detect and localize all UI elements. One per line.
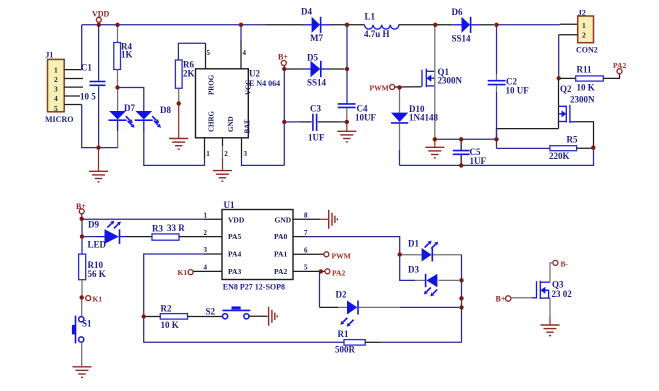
node boost junctions top rail [345, 23, 499, 27]
LED D1 [402, 239, 462, 262]
svg-text:D1: D1 [408, 239, 419, 249]
wire D1/D3 left branch [400, 255, 415, 281]
U1 pin 8 [293, 212, 329, 220]
U1 pin 2 [204, 229, 208, 237]
svg-text:R5: R5 [567, 135, 578, 145]
svg-text:3: 3 [244, 150, 248, 158]
capacitor C2 [488, 25, 530, 140]
transistor Q3 2302 [537, 280, 573, 300]
node B+ top terminal [278, 53, 288, 66]
wire B+ to Q3 gate [511, 297, 537, 299]
svg-text:SS14: SS14 [307, 78, 327, 88]
svg-text:5: 5 [207, 49, 211, 57]
node PA2 terminal at pin5 [325, 269, 346, 278]
node B+ gate junction [459, 296, 463, 300]
U1 pin 4 [193, 264, 222, 272]
svg-text:1: 1 [54, 65, 58, 74]
capacitor C3 [287, 104, 347, 143]
node PWM/D10 junction [397, 85, 401, 89]
svg-text:U2: U2 [249, 69, 260, 79]
svg-text:2: 2 [582, 31, 586, 40]
LED D2 [320, 290, 460, 327]
wire Q1 drain/source column [434, 25, 436, 140]
svg-text:CON2: CON2 [576, 46, 598, 55]
svg-text:PA1: PA1 [274, 250, 287, 259]
U1 pin 3 [204, 246, 223, 254]
connector J1 MICRO [45, 51, 73, 125]
ground below R6 [169, 104, 188, 150]
node D3 right junction [459, 278, 463, 282]
svg-text:7: 7 [304, 229, 308, 237]
node B+ / D5 junctions [282, 67, 349, 124]
svg-text:3: 3 [54, 85, 58, 94]
diode D6 SS14 [452, 7, 480, 44]
inductor L1 [364, 12, 399, 40]
svg-text:D3: D3 [408, 265, 419, 275]
svg-text:10UF: 10UF [355, 113, 376, 123]
node battery-minus row junctions [433, 137, 499, 167]
wire B+ column [283, 66, 285, 166]
wire right vertical collector x=461.5 [461, 255, 463, 343]
node PA2 branch junction [319, 269, 323, 273]
svg-text:S2: S2 [206, 306, 216, 316]
svg-text:2300N: 2300N [438, 76, 463, 86]
svg-text:D6: D6 [452, 7, 463, 17]
transistor Q2 2300N [559, 78, 596, 128]
node PA2 top terminal [613, 61, 626, 74]
svg-text:U1: U1 [224, 200, 235, 210]
transistor Q1 2300N [422, 67, 463, 87]
node K1 terminal at R10 [86, 295, 103, 304]
wire B+ column down to R10 [81, 219, 83, 254]
wire J1 pin5 to ground row [82, 105, 119, 148]
svg-text:56 K: 56 K [88, 269, 106, 279]
U1 pin 5 [293, 264, 325, 272]
node PWM terminal at pin6 [324, 252, 351, 261]
diode D4 M7 [301, 7, 331, 44]
svg-text:PA2: PA2 [274, 267, 287, 276]
svg-text:2K: 2K [183, 69, 195, 79]
ground below C3/C4 [337, 122, 356, 142]
ground below Q3 [541, 316, 560, 335]
wire Q3 drain to B- [550, 263, 553, 282]
svg-text:VDD: VDD [92, 10, 110, 19]
node D2 right junction [459, 305, 463, 309]
svg-text:1: 1 [582, 21, 586, 30]
ground below C1 [89, 148, 108, 182]
IC U2 charger [196, 69, 281, 138]
svg-text:33 R: 33 R [167, 223, 185, 233]
resistor R5 [497, 135, 594, 162]
svg-text:1K: 1K [121, 50, 133, 60]
resistor R1 [335, 329, 462, 355]
svg-text:4: 4 [204, 264, 208, 272]
wire PA0 pin7 to D1 [308, 237, 400, 255]
svg-text:K1: K1 [178, 268, 188, 277]
U2 pin 4 VCC top-right [241, 25, 247, 69]
svg-text:PA3: PA3 [228, 267, 241, 276]
svg-text:PWM: PWM [370, 83, 389, 92]
U1 pin 7 [293, 229, 308, 237]
svg-text:B+: B+ [496, 295, 506, 304]
wire B+ to U1 VDD pin1 [82, 214, 204, 220]
wire PWM to Q1 gate [395, 86, 422, 88]
svg-text:5: 5 [304, 264, 308, 272]
resistor R2 [144, 304, 223, 331]
svg-text:Q2: Q2 [560, 84, 572, 94]
U2 pin 2 GND bottom [223, 138, 229, 158]
switch S2 [206, 306, 268, 319]
svg-text:1UF: 1UF [470, 156, 487, 166]
svg-text:D7: D7 [124, 103, 135, 113]
node B- terminal [553, 260, 569, 269]
svg-text:4: 4 [243, 49, 247, 57]
switch S1 [72, 298, 92, 367]
svg-text:S1: S1 [82, 319, 92, 329]
wire bottom net row y=165.4 [400, 148, 594, 166]
svg-text:10 K: 10 K [161, 320, 179, 330]
svg-text:Q3: Q3 [552, 280, 564, 290]
svg-text:PROG: PROG [208, 74, 216, 95]
J1 pin stubs [64, 70, 83, 105]
svg-text:L1: L1 [365, 12, 376, 22]
svg-text:GND: GND [227, 116, 235, 132]
svg-text:23 02: 23 02 [552, 289, 573, 299]
svg-text:PWM: PWM [332, 252, 351, 261]
capacitor C4 [338, 104, 377, 123]
node PWM terminal [370, 83, 395, 92]
svg-text:D4: D4 [301, 7, 312, 17]
node B+ terminal at Q3 gate [496, 295, 511, 304]
wire Q3 source to ground [549, 298, 551, 316]
node B+ bottom-left terminal [76, 202, 86, 214]
svg-text:4: 4 [54, 94, 58, 103]
node R6 junction [177, 101, 181, 105]
svg-text:GND: GND [275, 216, 292, 225]
node R5 right junction [591, 146, 595, 150]
ground below S1 [73, 367, 92, 378]
svg-text:1: 1 [206, 150, 210, 158]
svg-text:R1: R1 [338, 329, 349, 339]
svg-text:3: 3 [204, 246, 208, 254]
wire Q2 source row to C2 node [497, 128, 559, 130]
svg-text:2: 2 [54, 75, 58, 84]
resistor R10 [79, 254, 106, 295]
wire left branch to J1 pin1 [81, 25, 83, 70]
capacitor C1 [80, 25, 106, 148]
svg-text:E N4 064: E N4 064 [249, 79, 280, 88]
node K1 terminal at pin4 [178, 268, 194, 277]
wire U2 BAT to B+ column [242, 158, 285, 165]
svg-text:2: 2 [204, 229, 208, 237]
diode D5 SS14 [287, 53, 345, 88]
ground rotated at S2 [269, 307, 278, 326]
svg-text:PA4: PA4 [228, 250, 241, 259]
svg-text:MICRO: MICRO [45, 115, 73, 124]
svg-text:SS14: SS14 [452, 34, 472, 44]
svg-text:1N4148: 1N4148 [409, 113, 438, 123]
LED D8 [135, 105, 172, 133]
wire J2 pin2 [559, 35, 578, 79]
svg-text:10 UF: 10 UF [506, 86, 530, 96]
wire VDD top rail y=24.8 [82, 23, 578, 26]
svg-text:VCC: VCC [245, 80, 253, 95]
ground below U2 GND pin [213, 158, 232, 181]
svg-text:D8: D8 [160, 105, 171, 115]
svg-text:R3: R3 [152, 224, 163, 234]
wire D8 to U2 CHRG [144, 133, 205, 165]
wire Q2 gate to R5 right [570, 122, 594, 148]
node D1 branch junction [398, 252, 402, 256]
U2 pin 3 BAT bottom [242, 138, 248, 158]
svg-text:D9: D9 [88, 220, 99, 230]
U1 pin 6 [293, 246, 324, 254]
svg-text:K1: K1 [93, 295, 103, 304]
svg-text:500R: 500R [335, 345, 356, 355]
svg-text:C3: C3 [310, 104, 321, 114]
resistor R4 [114, 25, 133, 88]
svg-text:6: 6 [304, 246, 308, 254]
node C1 ground junction [96, 145, 100, 149]
svg-text:PA0: PA0 [274, 232, 287, 241]
wire PA4 loop to R2 and bottom row [144, 254, 344, 342]
svg-text:D2: D2 [336, 290, 347, 300]
svg-text:10 5: 10 5 [80, 92, 96, 102]
svg-text:CHRG: CHRG [208, 110, 216, 132]
U2 pin 5 PROG top-left [206, 43, 211, 69]
node B+ bottom junctions [80, 217, 85, 300]
U1 pin 1 [204, 212, 223, 220]
svg-text:R11: R11 [577, 65, 593, 75]
wire R4 junction to D8 [118, 88, 144, 112]
diode D10 1N4148 [391, 88, 438, 166]
LED D7 [109, 88, 136, 148]
svg-text:J1: J1 [45, 51, 53, 60]
svg-text:2: 2 [224, 150, 228, 158]
LED D3 [408, 265, 459, 297]
power VDD terminal [92, 10, 110, 23]
resistor R11 [559, 65, 620, 93]
svg-text:LED: LED [88, 240, 107, 250]
resistor R6 [175, 43, 205, 103]
node VDD junctions [97, 23, 244, 27]
connector J2 CON2 [576, 9, 598, 55]
svg-text:8: 8 [304, 212, 308, 220]
svg-text:R2: R2 [161, 304, 172, 314]
LED D9 [82, 220, 152, 250]
svg-text:220K: 220K [549, 151, 570, 161]
svg-text:EN8 P27 12-SOP8: EN8 P27 12-SOP8 [223, 282, 285, 291]
svg-text:10 K: 10 K [577, 83, 595, 93]
svg-text:D5: D5 [307, 53, 318, 63]
capacitor C5 [453, 139, 487, 166]
svg-text:B-: B- [561, 260, 569, 269]
svg-text:BAT: BAT [244, 119, 252, 133]
svg-text:4.7u H: 4.7u H [364, 29, 390, 39]
IC U1 EN8P2712 [222, 200, 293, 291]
wire battery-minus row y=139.3 [435, 138, 497, 140]
svg-text:VDD: VDD [228, 216, 245, 225]
svg-text:PA2: PA2 [332, 269, 345, 278]
svg-text:5: 5 [54, 104, 58, 113]
node R2 junction [142, 314, 146, 318]
wire PA2 pin5 branch to D2 [320, 271, 321, 307]
node R4/D7 junction [115, 85, 119, 89]
svg-text:1: 1 [204, 212, 208, 220]
svg-text:C1: C1 [81, 63, 92, 73]
ground rotated at U1 pin 8 [329, 210, 338, 229]
svg-text:1UF: 1UF [308, 133, 325, 143]
U2 pin 1 CHRG bottom [205, 138, 211, 158]
node J2 pin2 / R11 junction [557, 76, 561, 80]
resistor R3 [152, 223, 222, 240]
svg-text:M7: M7 [310, 33, 323, 43]
svg-text:PA5: PA5 [228, 232, 241, 241]
wire mid column x=347 [346, 25, 348, 104]
svg-text:2300N: 2300N [570, 95, 595, 105]
ground below row at x=434.8 [425, 139, 444, 158]
